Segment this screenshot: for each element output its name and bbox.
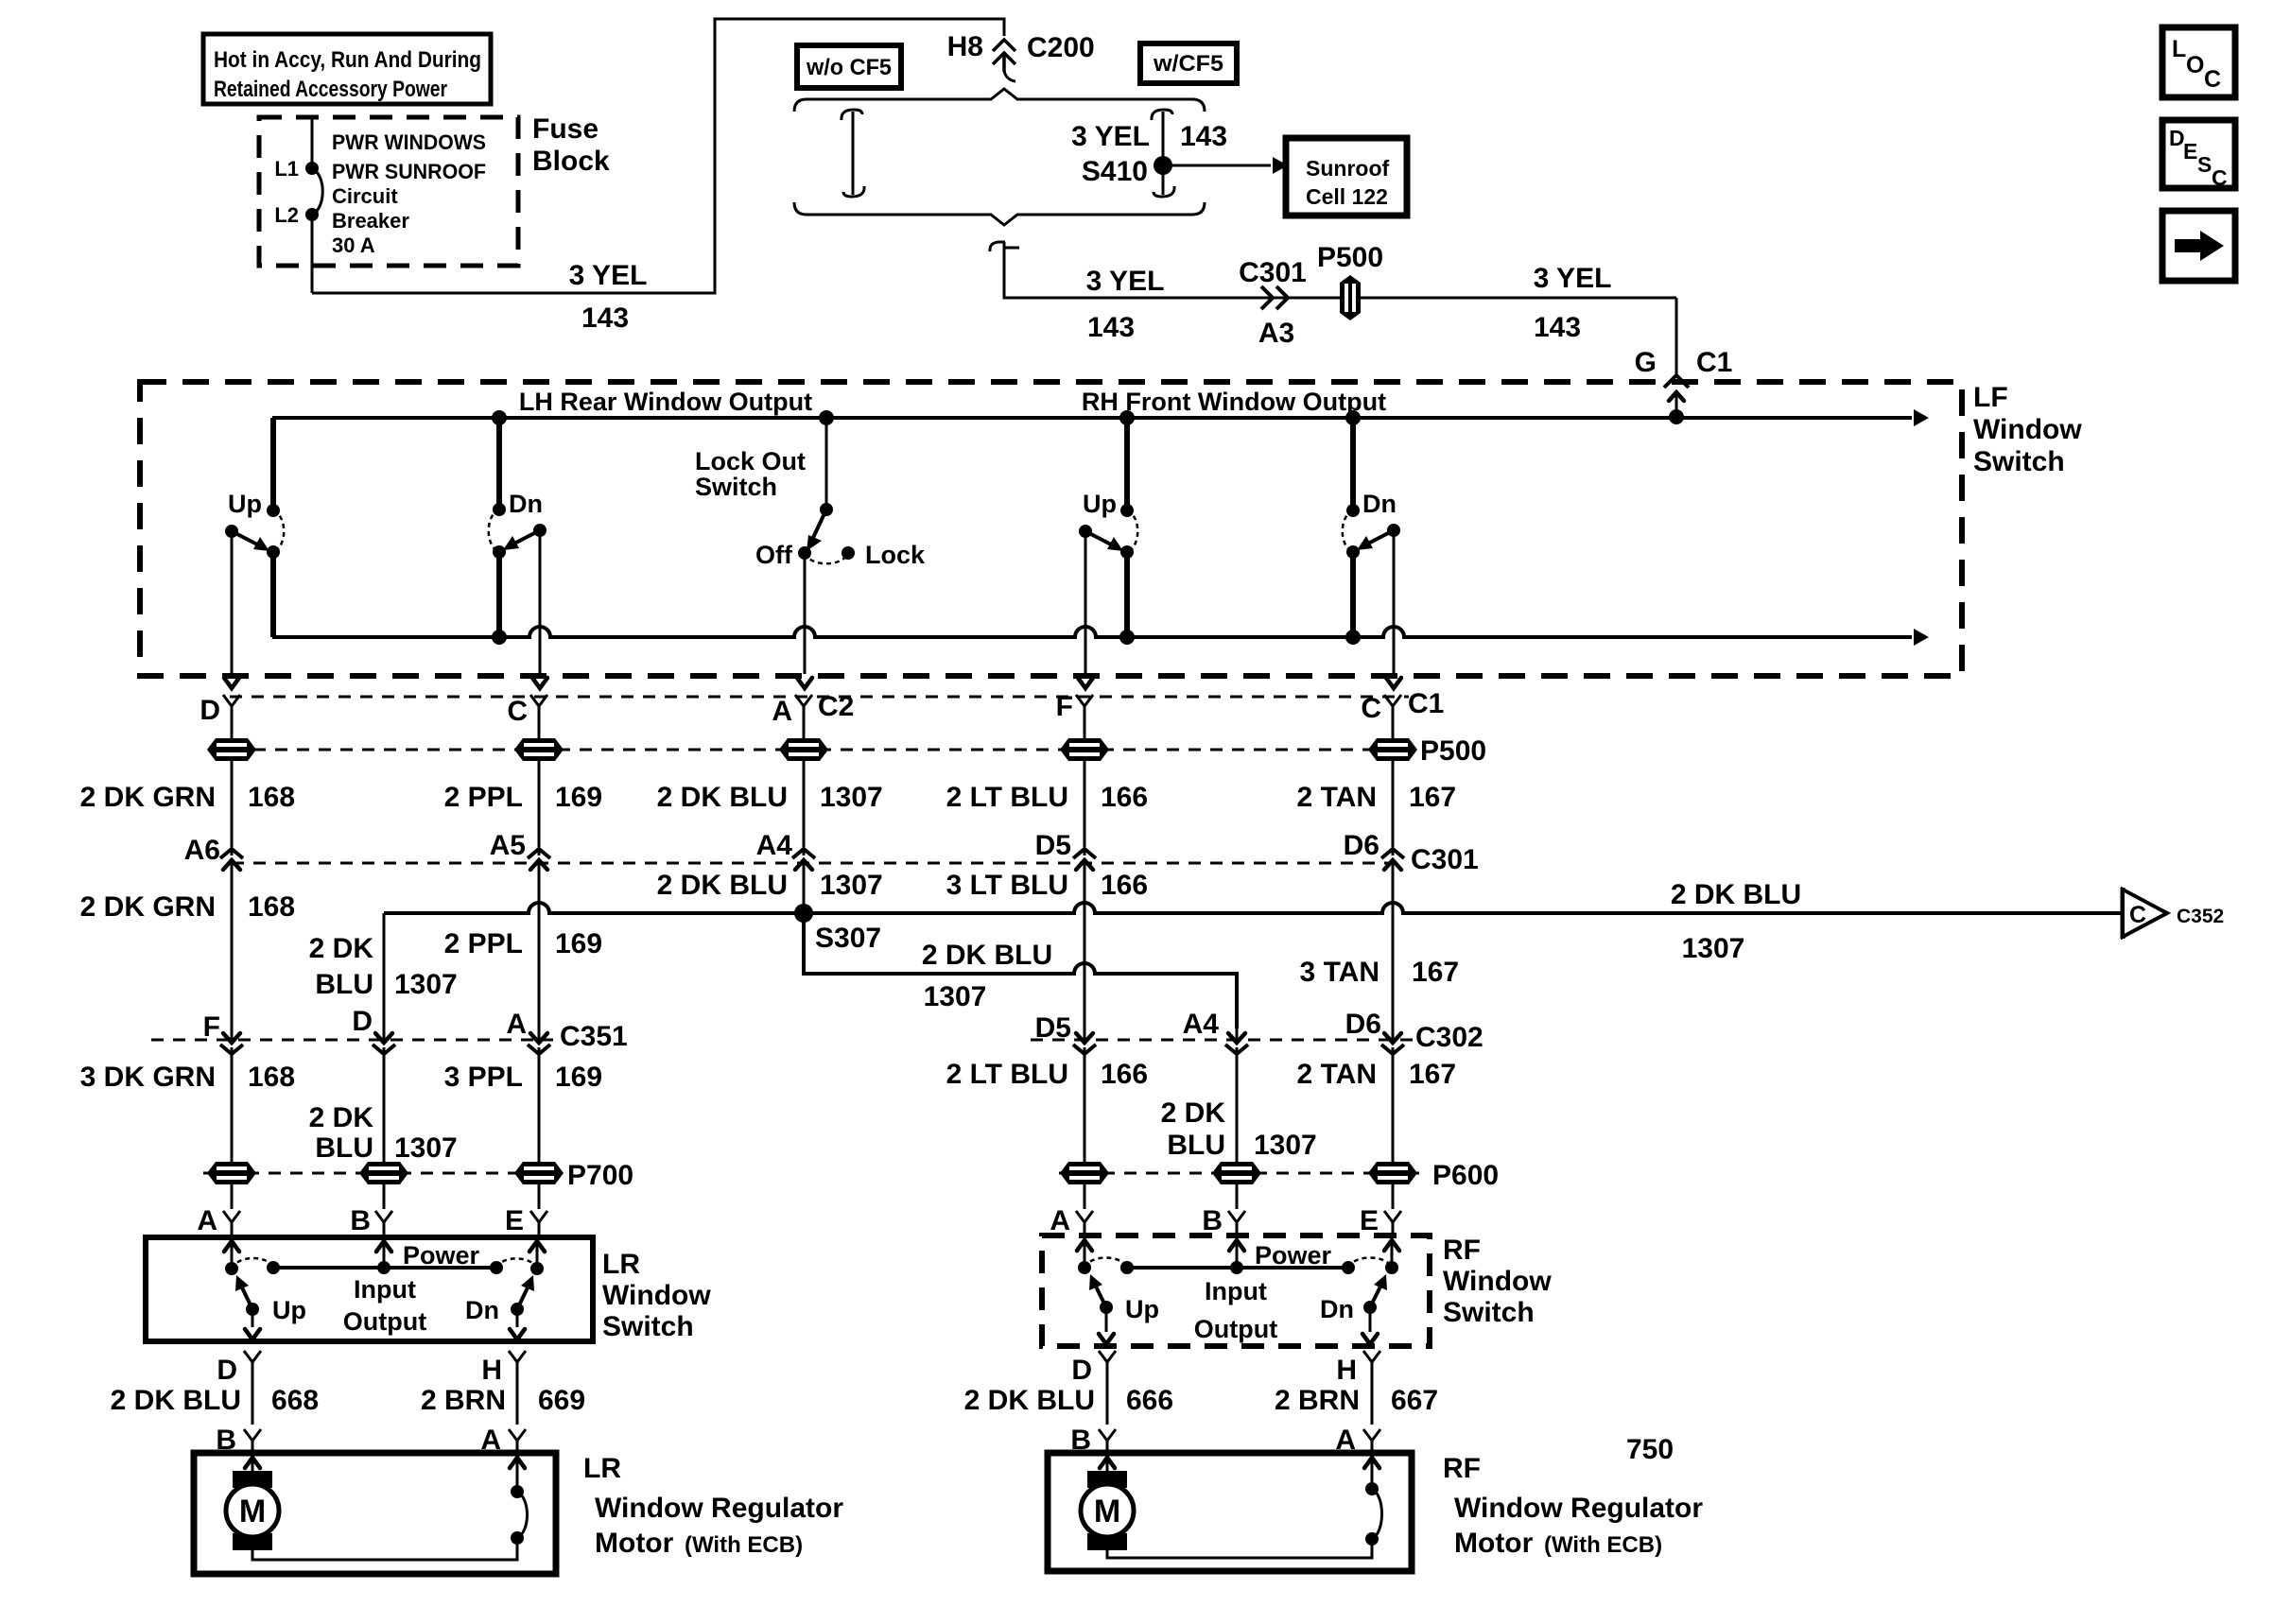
svg-text:Output: Output xyxy=(343,1307,426,1336)
pin B of LR motor xyxy=(216,1425,261,1456)
svg-text:C2: C2 xyxy=(818,691,854,722)
switch: LR window switch contacts (Up/Dn, Power Input Output) xyxy=(224,1237,545,1339)
connector row C2 / C1 (LF switch pins) xyxy=(200,688,1444,739)
wire: lockout output to pin A xyxy=(797,553,812,688)
svg-text:A: A xyxy=(197,1205,217,1236)
splice S410 with wire 3 YEL 143 xyxy=(1071,110,1227,197)
svg-text:E: E xyxy=(2183,139,2197,164)
svg-text:P500: P500 xyxy=(1420,735,1486,767)
switch: LF RH-front Up contact xyxy=(1079,410,1137,645)
svg-text:2 DK GRN: 2 DK GRN xyxy=(80,891,216,923)
svg-text:2 TAN: 2 TAN xyxy=(1297,782,1377,813)
wire: 3 YEL 143 from brace to LF window switch xyxy=(990,242,1676,343)
wire: 2 TAN 167 (C to D6) xyxy=(1297,760,1457,847)
svg-text:A4: A4 xyxy=(756,830,793,861)
svg-text:RF: RF xyxy=(1443,1453,1481,1484)
connector C301 pin A3 (inline) xyxy=(1239,257,1307,349)
svg-text:167: 167 xyxy=(1409,1059,1456,1090)
svg-text:Output: Output xyxy=(1194,1315,1277,1343)
motor M (RF) with ECB contact xyxy=(1081,1453,1382,1558)
svg-text:1307: 1307 xyxy=(820,782,883,813)
svg-text:2 DK BLU: 2 DK BLU xyxy=(1671,879,1801,910)
svg-text:C302: C302 xyxy=(1415,1022,1484,1053)
svg-text:168: 168 xyxy=(248,782,295,813)
svg-text:A6: A6 xyxy=(184,835,220,866)
wire: 2 DK BLU 1307 branch from S307 to C302-A4 xyxy=(804,913,1237,1028)
wire: LF switch output to pin C (C1) xyxy=(1386,530,1401,688)
svg-text:Dn: Dn xyxy=(465,1296,499,1324)
wire: 2 DK BLU 1307 from bus to C351-D xyxy=(309,913,458,1027)
connector row C302 pins D5 A4 D6 xyxy=(1031,1009,1484,1054)
LR Window Switch (box) xyxy=(146,1237,711,1342)
svg-text:2 DK: 2 DK xyxy=(309,933,374,964)
svg-text:1307: 1307 xyxy=(1254,1130,1317,1161)
connector C1 pin G xyxy=(1635,347,1733,417)
svg-text:Lock Out: Lock Out xyxy=(695,447,806,475)
wire: 2 DK BLU 1307 (D to P700) xyxy=(309,1053,458,1164)
svg-text:169: 169 xyxy=(555,1062,602,1093)
svg-text:169: 169 xyxy=(555,928,602,959)
svg-text:M: M xyxy=(1094,1494,1120,1529)
wire: 3 YEL 143 down to connector C1 pin G xyxy=(1534,263,1676,375)
svg-text:Hot in Accy, Run And During: Hot in Accy, Run And During xyxy=(214,47,481,73)
svg-text:D: D xyxy=(217,1355,237,1386)
svg-text:143: 143 xyxy=(1087,312,1135,343)
svg-text:PWR SUNROOF: PWR SUNROOF xyxy=(332,160,486,183)
pins A B E into LR window switch xyxy=(197,1183,547,1236)
svg-text:143: 143 xyxy=(1534,312,1581,343)
wire: 2 DK GRN 168 (D to A6) xyxy=(80,760,295,847)
svg-text:Switch: Switch xyxy=(1973,446,2065,477)
svg-text:Up: Up xyxy=(272,1296,306,1324)
pin D of RF switch, wire 2 DK BLU 666 xyxy=(964,1351,1173,1425)
svg-text:2 DK BLU: 2 DK BLU xyxy=(111,1385,241,1416)
svg-text:3 TAN: 3 TAN xyxy=(1300,957,1379,988)
grommet row P700 xyxy=(203,1160,633,1191)
svg-text:BLU: BLU xyxy=(315,1132,373,1164)
svg-text:667: 667 xyxy=(1391,1385,1438,1416)
svg-text:30 A: 30 A xyxy=(332,233,375,257)
wire: arrow from S410 to Sunroof Cell 122 xyxy=(1172,157,1288,174)
svg-text:Switch: Switch xyxy=(602,1311,694,1342)
svg-text:2 DK BLU: 2 DK BLU xyxy=(922,940,1052,971)
connector row C301 pins A6 A5 A4 D5 D6 xyxy=(184,830,1479,876)
svg-text:Block: Block xyxy=(532,146,610,177)
wire: 2 DK BLU 1307 (A4 to P600) xyxy=(1161,1053,1317,1163)
motor M (LR) with ECB contact xyxy=(226,1453,528,1560)
svg-text:C301: C301 xyxy=(1239,257,1307,288)
svg-text:Fuse: Fuse xyxy=(532,113,599,145)
wire: 2 LT BLU 166 (F to D5) xyxy=(946,760,1149,847)
svg-text:Power: Power xyxy=(403,1241,480,1270)
svg-text:2 DK BLU: 2 DK BLU xyxy=(964,1385,1095,1416)
svg-text:3 YEL: 3 YEL xyxy=(569,260,648,291)
svg-text:w/o CF5: w/o CF5 xyxy=(806,55,892,80)
pin H of RF switch, wire 2 BRN 667 xyxy=(1275,1351,1438,1425)
wire: LF switch output to pin F xyxy=(1078,531,1093,688)
svg-text:C301: C301 xyxy=(1411,844,1479,875)
svg-text:Circuit: Circuit xyxy=(332,184,398,208)
wire: 3 DK GRN 168 (F to P700) xyxy=(80,1053,295,1163)
svg-text:2 PPL: 2 PPL xyxy=(444,782,523,813)
svg-text:BLU: BLU xyxy=(1167,1130,1225,1161)
svg-text:C351: C351 xyxy=(560,1021,628,1052)
svg-text:(With ECB): (With ECB) xyxy=(685,1532,803,1558)
svg-text:2 DK: 2 DK xyxy=(309,1102,374,1133)
wire: 2 DK GRN 168 (A6 to F) xyxy=(80,865,295,1035)
svg-text:Breaker: Breaker xyxy=(332,209,409,233)
svg-text:Sunroof: Sunroof xyxy=(1306,156,1389,181)
legend box LOC xyxy=(2162,27,2235,97)
svg-text:Window: Window xyxy=(1443,1266,1552,1297)
svg-text:Up: Up xyxy=(228,490,262,518)
wire: 3 TAN 167 (D6 down) xyxy=(1300,865,1460,1035)
pin B of RF motor xyxy=(1070,1425,1116,1456)
svg-text:C: C xyxy=(2204,66,2221,93)
svg-text:Window Regulator: Window Regulator xyxy=(595,1493,843,1524)
svg-text:Window: Window xyxy=(602,1280,711,1311)
fuse block (dashed box) xyxy=(259,113,610,266)
svg-text:M: M xyxy=(239,1494,266,1529)
wire: 2 LT BLU 166 (D5 to P600) xyxy=(946,1053,1149,1163)
svg-text:L2: L2 xyxy=(274,203,299,227)
pin D of LR switch, wire 2 DK BLU 668 xyxy=(111,1351,319,1425)
wire: LF switch output to pin C xyxy=(532,530,547,688)
svg-text:2 DK BLU: 2 DK BLU xyxy=(657,782,788,813)
circuit breaker 30A (PWR WINDOWS / PWR SUNROOF), pins L1 L2 xyxy=(274,117,486,293)
svg-text:Motor: Motor xyxy=(595,1528,674,1559)
splice S307 xyxy=(794,904,881,954)
svg-text:Window Regulator: Window Regulator xyxy=(1454,1493,1703,1524)
svg-text:w/CF5: w/CF5 xyxy=(1153,51,1223,77)
svg-text:143: 143 xyxy=(1180,121,1227,152)
svg-text:Up: Up xyxy=(1083,490,1117,518)
svg-text:Off: Off xyxy=(755,541,793,569)
svg-text:750: 750 xyxy=(1626,1434,1674,1465)
switch: LF LH-rear Up contact xyxy=(225,418,284,637)
svg-text:P700: P700 xyxy=(567,1160,633,1191)
svg-text:168: 168 xyxy=(248,891,295,923)
svg-text:669: 669 xyxy=(538,1385,585,1416)
svg-text:1307: 1307 xyxy=(924,981,987,1012)
svg-text:143: 143 xyxy=(581,302,629,334)
svg-text:A: A xyxy=(506,1009,527,1040)
svg-text:Motor: Motor xyxy=(1454,1528,1534,1559)
svg-text:166: 166 xyxy=(1101,1059,1148,1090)
svg-text:2 BRN: 2 BRN xyxy=(1275,1385,1360,1416)
pin H of LR switch, wire 2 BRN 669 xyxy=(421,1351,585,1425)
svg-text:B: B xyxy=(1202,1205,1223,1236)
svg-text:L: L xyxy=(2172,36,2186,62)
svg-text:F: F xyxy=(203,1011,220,1043)
svg-text:S307: S307 xyxy=(815,923,881,954)
legend box DESC xyxy=(2162,120,2235,190)
RF Window Regulator Motor box xyxy=(1048,1453,1703,1571)
svg-text:666: 666 xyxy=(1126,1385,1173,1416)
page number 750 xyxy=(1626,1434,1674,1465)
svg-text:LF: LF xyxy=(1973,382,2008,413)
svg-text:H: H xyxy=(1336,1355,1357,1386)
svg-text:C1: C1 xyxy=(1408,688,1444,719)
svg-text:Dn: Dn xyxy=(1320,1295,1354,1323)
pin A of RF motor xyxy=(1335,1425,1380,1456)
svg-text:167: 167 xyxy=(1409,782,1456,813)
svg-text:PWR WINDOWS: PWR WINDOWS xyxy=(332,130,486,154)
switch: LF RH-front Dn contact xyxy=(1343,410,1400,645)
svg-text:Switch: Switch xyxy=(695,473,777,501)
svg-text:3 LT BLU: 3 LT BLU xyxy=(946,870,1068,901)
wire: 3 LT BLU 166 (D5 down) xyxy=(946,865,1149,1035)
svg-text:H8: H8 xyxy=(947,31,983,62)
svg-text:166: 166 xyxy=(1101,782,1148,813)
svg-text:3 YEL: 3 YEL xyxy=(1534,263,1612,294)
svg-text:2 DK GRN: 2 DK GRN xyxy=(80,782,216,813)
connector C352 pin C (out) xyxy=(2123,888,2224,939)
wire: 3 PPL 169 (A to P700) xyxy=(444,1053,602,1163)
switch: Lock Out Switch (Off/Lock) xyxy=(695,410,926,569)
svg-text:Power: Power xyxy=(1255,1241,1332,1270)
wire: 2 TAN 167 (D6 to P600) xyxy=(1297,1053,1457,1163)
svg-text:3 YEL: 3 YEL xyxy=(1086,266,1165,297)
svg-text:C200: C200 xyxy=(1027,32,1095,63)
svg-text:A: A xyxy=(1050,1205,1070,1236)
svg-text:P600: P600 xyxy=(1432,1160,1499,1191)
svg-text:Up: Up xyxy=(1125,1295,1159,1323)
svg-text:Lock: Lock xyxy=(865,541,926,569)
svg-text:BLU: BLU xyxy=(315,969,373,1000)
wire: 2 DK BLU 1307 bus from C351-D to C352 xyxy=(384,879,2122,964)
svg-text:F: F xyxy=(1056,691,1073,722)
svg-text:3 DK GRN: 3 DK GRN xyxy=(80,1062,216,1093)
wire: 2 DK BLU 1307 (A4 to S307) xyxy=(657,865,883,906)
svg-text:Switch: Switch xyxy=(1443,1297,1535,1328)
svg-text:3 YEL: 3 YEL xyxy=(1071,121,1150,152)
svg-text:C: C xyxy=(507,696,528,727)
pin A of LR motor xyxy=(480,1425,526,1456)
svg-text:S410: S410 xyxy=(1082,156,1148,187)
LF Window Switch (dashed box) xyxy=(140,382,2082,676)
svg-text:Input: Input xyxy=(354,1275,416,1304)
svg-text:1307: 1307 xyxy=(394,1132,458,1164)
svg-text:2 DK BLU: 2 DK BLU xyxy=(657,870,788,901)
svg-text:D6: D6 xyxy=(1344,830,1379,861)
wire: 2 PPL 169 (A5 to A) xyxy=(444,865,602,1035)
svg-text:C: C xyxy=(1361,693,1381,724)
svg-text:1307: 1307 xyxy=(1682,933,1745,964)
grommet P500 (inline on 3 YEL) xyxy=(1317,242,1383,320)
note box: Hot in Accy, Run And During Retained Accessory Power xyxy=(203,34,491,104)
svg-text:Input: Input xyxy=(1205,1277,1267,1305)
svg-text:Window: Window xyxy=(1973,414,2082,445)
connector row C351 pins F D A xyxy=(151,1006,628,1054)
svg-text:Dn: Dn xyxy=(1362,490,1397,518)
svg-text:S: S xyxy=(2197,152,2212,177)
svg-text:168: 168 xyxy=(248,1062,295,1093)
switch: RF window switch contacts (Up/Dn, Power Input Output) xyxy=(1077,1235,1399,1344)
tag box: w/CF5 xyxy=(1140,43,1237,83)
svg-text:D5: D5 xyxy=(1035,830,1071,861)
svg-text:167: 167 xyxy=(1412,957,1459,988)
svg-text:1307: 1307 xyxy=(820,870,883,901)
svg-text:LH Rear Window Output: LH Rear Window Output xyxy=(519,388,812,416)
svg-text:C: C xyxy=(2212,165,2228,190)
svg-text:C: C xyxy=(2129,902,2146,928)
wire: 3 YEL 143 from fuse block to C200 xyxy=(312,19,1004,334)
svg-text:2 DK: 2 DK xyxy=(1161,1097,1226,1129)
svg-text:C1: C1 xyxy=(1696,347,1732,378)
svg-text:P500: P500 xyxy=(1317,242,1383,273)
svg-text:D: D xyxy=(200,695,220,726)
svg-text:RF: RF xyxy=(1443,1235,1481,1266)
wire: LF switch bottom rail xyxy=(272,627,1929,646)
svg-text:A4: A4 xyxy=(1183,1009,1220,1040)
svg-text:E: E xyxy=(505,1205,524,1236)
switch: LF LH-rear Dn contact xyxy=(489,410,547,645)
svg-text:A: A xyxy=(772,696,792,727)
svg-text:Dn: Dn xyxy=(509,490,543,518)
grommet row P600 xyxy=(1059,1160,1499,1191)
svg-text:LR: LR xyxy=(583,1453,621,1484)
svg-text:D: D xyxy=(1071,1355,1092,1386)
wire: LF switch output to pin D xyxy=(224,531,239,688)
svg-text:G: G xyxy=(1635,347,1657,378)
svg-text:3 PPL: 3 PPL xyxy=(444,1062,523,1093)
svg-text:169: 169 xyxy=(555,782,602,813)
wire segment (w/o CF5 path) xyxy=(842,110,864,197)
svg-text:D6: D6 xyxy=(1345,1009,1381,1040)
svg-text:O: O xyxy=(2186,52,2204,78)
svg-text:D5: D5 xyxy=(1035,1012,1071,1044)
svg-text:(With ECB): (With ECB) xyxy=(1544,1532,1662,1558)
reference box: Sunroof Cell 122 xyxy=(1286,138,1407,216)
svg-text:166: 166 xyxy=(1101,870,1148,901)
svg-text:668: 668 xyxy=(271,1385,319,1416)
svg-text:2 PPL: 2 PPL xyxy=(444,928,523,959)
RF Window Switch (dashed box) xyxy=(1042,1235,1552,1346)
svg-text:B: B xyxy=(350,1205,371,1236)
grommet row P500 (door boot) xyxy=(207,735,1486,767)
svg-text:Cell 122: Cell 122 xyxy=(1306,184,1388,209)
svg-text:2 BRN: 2 BRN xyxy=(421,1385,506,1416)
tag box: w/o CF5 xyxy=(797,45,901,88)
connector C200 pin H8 xyxy=(947,31,1095,81)
wire: 2 PPL 169 (C to A5) xyxy=(444,760,602,847)
wire: LF switch top rail (window outputs) xyxy=(272,388,1929,426)
legend box arrow xyxy=(2162,211,2235,281)
svg-text:LR: LR xyxy=(602,1249,640,1280)
brace (lower alternative span) xyxy=(794,202,1205,225)
svg-text:2 TAN: 2 TAN xyxy=(1297,1059,1377,1090)
svg-text:C352: C352 xyxy=(2177,906,2224,927)
svg-text:A3: A3 xyxy=(1258,318,1294,349)
svg-text:2 LT BLU: 2 LT BLU xyxy=(946,782,1068,813)
pins A B E into RF window switch xyxy=(1050,1183,1401,1236)
junction: C1-G feed on top rail xyxy=(1669,409,1684,424)
svg-text:1307: 1307 xyxy=(394,969,458,1000)
svg-text:Retained Accessory Power: Retained Accessory Power xyxy=(214,77,447,102)
brace (upper alternative span) xyxy=(794,89,1205,112)
svg-text:E: E xyxy=(1360,1205,1379,1236)
svg-text:L1: L1 xyxy=(274,157,299,181)
LR Window Regulator Motor box xyxy=(194,1453,843,1574)
svg-text:D: D xyxy=(352,1006,373,1037)
svg-text:A5: A5 xyxy=(490,830,526,861)
wire: 2 DK BLU 1307 (A to A4) xyxy=(657,760,883,847)
svg-text:H: H xyxy=(481,1355,502,1386)
svg-text:2 LT BLU: 2 LT BLU xyxy=(946,1059,1068,1090)
